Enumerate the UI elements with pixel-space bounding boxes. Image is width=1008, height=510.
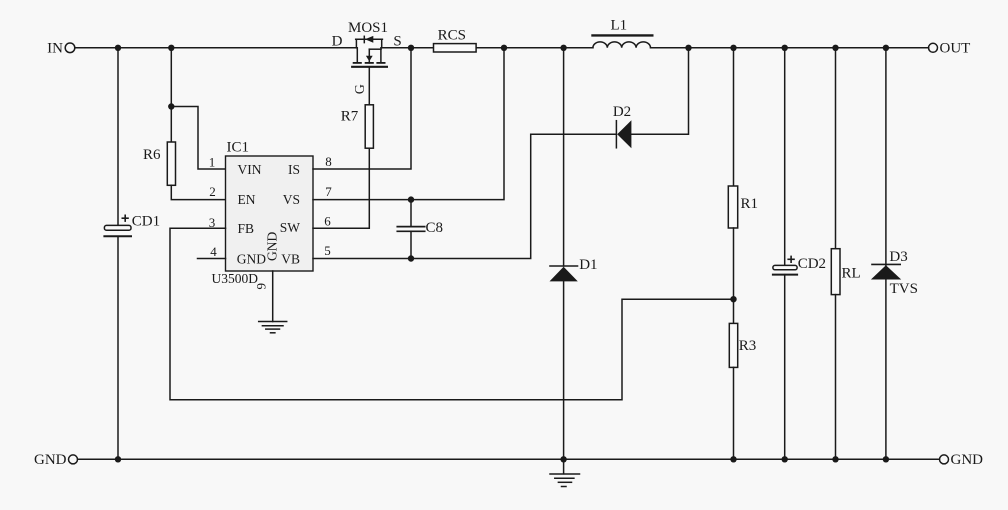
wire R1 column upper xyxy=(733,48,735,186)
svg-text:RCS: RCS xyxy=(438,27,466,43)
svg-text:2: 2 xyxy=(209,184,216,199)
node bottom rail D1 xyxy=(560,456,566,462)
node top rail D3 xyxy=(883,45,889,51)
terminal OUT xyxy=(929,41,971,57)
ground bottom rail xyxy=(550,459,580,486)
wire bottom GND rail xyxy=(78,458,940,460)
svg-text:OUT: OUT xyxy=(940,41,971,57)
terminal GND right xyxy=(940,452,984,468)
svg-text:VIN: VIN xyxy=(238,162,262,177)
svg-text:GND: GND xyxy=(237,251,266,266)
wire CD1 column lower xyxy=(117,236,119,459)
capacitor C8 xyxy=(397,200,443,259)
node top rail VS xyxy=(501,45,507,51)
wire CD2 column lower xyxy=(784,275,786,460)
wire pin 5 VB to D2 xyxy=(313,134,616,258)
node C8 top xyxy=(408,196,414,202)
svg-text:R3: R3 xyxy=(739,338,757,354)
node top rail RL xyxy=(832,45,838,51)
wire pin 6 SW up to R7 xyxy=(313,148,369,228)
wire top rail IN to MOS1 drain xyxy=(75,47,357,49)
svg-text:IC1: IC1 xyxy=(227,140,250,156)
wire MOS1 gate to R7 xyxy=(368,67,370,105)
svg-text:SW: SW xyxy=(280,220,301,235)
svg-text:D: D xyxy=(332,33,343,49)
ground IC1 pin 9 xyxy=(259,322,287,333)
node bottom rail D3 xyxy=(883,456,889,462)
capacitor CD1 xyxy=(104,213,160,236)
svg-text:GND: GND xyxy=(951,452,984,468)
node divider xyxy=(730,296,736,302)
node bottom rail RL xyxy=(832,456,838,462)
svg-text:S: S xyxy=(393,33,401,49)
resistor R7 xyxy=(341,105,374,148)
node top rail R6 xyxy=(168,45,174,51)
wire RL column upper xyxy=(835,48,837,249)
wire pin 8 IS to source node xyxy=(313,48,411,169)
node top rail CD1 xyxy=(115,45,121,51)
svg-text:R6: R6 xyxy=(143,147,161,163)
svg-text:GND: GND xyxy=(34,452,67,468)
wire D1 column upper xyxy=(563,48,565,266)
svg-text:IN: IN xyxy=(47,41,63,57)
svg-text:G: G xyxy=(353,84,368,94)
svg-text:8: 8 xyxy=(325,154,332,169)
wire D3 column lower xyxy=(885,280,887,460)
svg-text:5: 5 xyxy=(324,243,331,258)
wire CD2 column upper xyxy=(784,48,786,266)
svg-text:GND: GND xyxy=(265,232,280,261)
transistor MOS1 xyxy=(332,20,402,94)
svg-text:4: 4 xyxy=(210,244,217,259)
svg-text:FB: FB xyxy=(238,221,255,236)
node bottom rail CD2 xyxy=(782,456,788,462)
svg-text:D3: D3 xyxy=(889,249,907,265)
terminal IN xyxy=(47,41,75,57)
resistor RCS xyxy=(434,27,477,52)
svg-text:7: 7 xyxy=(325,184,332,199)
svg-text:U3500D: U3500D xyxy=(212,271,259,286)
svg-text:C8: C8 xyxy=(426,220,444,236)
resistor R1 xyxy=(728,186,758,228)
svg-text:MOS1: MOS1 xyxy=(348,20,388,36)
svg-text:L1: L1 xyxy=(610,18,627,34)
svg-text:D2: D2 xyxy=(613,104,631,120)
node top rail D1 xyxy=(560,45,566,51)
svg-text:CD1: CD1 xyxy=(132,213,160,229)
svg-text:R7: R7 xyxy=(341,108,359,124)
resistor RL xyxy=(831,249,860,295)
wire pin 9 to ground xyxy=(272,271,274,322)
diode D1 xyxy=(550,257,598,281)
wire D1 anode to bottom rail xyxy=(563,281,565,459)
svg-text:1: 1 xyxy=(209,155,216,170)
wire MOS1 source to RCS xyxy=(382,47,434,49)
node bottom rail CD1 xyxy=(115,456,121,462)
wire R1 to R3 xyxy=(733,228,735,323)
op-amp IC1 U3500D body xyxy=(212,140,314,287)
node top rail R1 xyxy=(730,45,736,51)
inductor L1 xyxy=(593,18,653,48)
wire CD1 column upper xyxy=(117,48,119,226)
svg-text:VB: VB xyxy=(281,251,300,266)
node top rail D2 xyxy=(685,45,691,51)
wire L1 to OUT xyxy=(651,47,929,49)
svg-text:TVS: TVS xyxy=(890,281,918,297)
node C8 bottom xyxy=(408,255,414,261)
svg-text:RL: RL xyxy=(842,266,861,282)
node R6 top xyxy=(168,103,174,109)
terminal GND left xyxy=(34,452,78,468)
svg-text:6: 6 xyxy=(324,213,331,228)
wire R6 bottom to EN pin 2 xyxy=(171,185,225,199)
capacitor CD2 xyxy=(773,256,826,275)
wire R6 node to VIN pin 1 xyxy=(171,107,225,170)
resistor R6 xyxy=(143,142,176,185)
wire D2 anode to L1 right node xyxy=(631,48,688,135)
wire pin 7 VS to top rail xyxy=(313,48,504,200)
node top rail CD2 xyxy=(782,45,788,51)
svg-text:9: 9 xyxy=(254,283,269,290)
svg-text:D1: D1 xyxy=(579,257,597,273)
wire RL column lower xyxy=(835,295,837,460)
node top rail S xyxy=(408,45,414,51)
wire pin 3 FB to divider node xyxy=(170,228,734,399)
svg-text:CD2: CD2 xyxy=(798,256,826,272)
wire R6 column from top rail xyxy=(170,48,172,142)
resistor R3 xyxy=(729,323,756,367)
wire D3 column upper xyxy=(885,48,887,265)
svg-text:VS: VS xyxy=(283,192,300,207)
svg-text:IS: IS xyxy=(288,162,300,177)
diode D2 xyxy=(613,104,632,149)
svg-text:R1: R1 xyxy=(741,196,759,212)
svg-text:EN: EN xyxy=(238,192,256,207)
wire R3 to bottom rail xyxy=(733,367,735,459)
wire pin 4 GND stub xyxy=(198,258,226,260)
wire RCS to L1 xyxy=(476,47,593,49)
diode D3 TVS xyxy=(871,249,918,297)
node bottom rail R3 xyxy=(730,456,736,462)
